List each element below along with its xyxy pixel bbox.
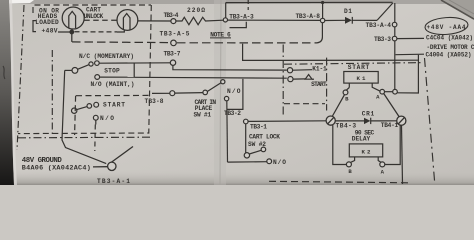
relay K2 — [333, 125, 403, 184]
switch S3 CART IN PLACE SW #1 — [152, 79, 243, 162]
wire: start box dashed left — [75, 96, 76, 135]
svg-text:TB3-8: TB3-8 — [145, 98, 164, 105]
svg-text:220Ω: 220Ω — [187, 7, 205, 14]
switch S2 START momentary — [72, 95, 151, 151]
svg-text:B4A06 (XA042AC4): B4A06 (XA042AC4) — [22, 164, 91, 172]
svg-text:N/O (MAINT,): N/O (MAINT,) — [91, 81, 135, 88]
terminal TB3-7 — [170, 60, 175, 65]
top edge shading — [0, 0, 474, 4]
wire: TB3-3 to connector text — [397, 37, 424, 39]
wire: K2 B to TB4-3 — [333, 125, 347, 164]
wire: lamp DS1 bottom stub — [71, 29, 73, 32]
switch S4 CART LOCK SW #2 — [228, 124, 272, 164]
wire: dashed link DS1 to DS2 top — [84, 19, 116, 21]
wire: K2 A to TB4-1 — [385, 125, 400, 164]
wire: TB3-A-3 to TB3-A-8 — [228, 19, 321, 21]
terminal TB3-3 — [392, 36, 397, 41]
wire: enclosure right dashed vertical — [18, 5, 151, 134]
terminal TB3-1 — [244, 119, 249, 124]
svg-text:UNLOCK: UNLOCK — [84, 13, 104, 20]
wire: jog from aux rail to sw1 drop — [227, 79, 243, 110]
svg-text:TB4-1: TB4-1 — [381, 122, 399, 129]
svg-text:TB3-1: TB3-1 — [250, 123, 267, 130]
svg-text:NOTE 6: NOTE 6 — [210, 31, 231, 38]
net label: +48V -AA4 (circled) — [424, 16, 468, 36]
wire: rail corner up to TB3-A-8 — [317, 23, 322, 43]
wire: dashed drain below start — [94, 125, 97, 152]
terminal TB3-A-5 — [171, 40, 177, 46]
wire: +48V node drop — [71, 33, 73, 42]
svg-text:SW #1: SW #1 — [194, 112, 212, 119]
terminal TB3-4 — [171, 19, 176, 24]
wire: relay supply rail — [243, 44, 418, 61]
maintained contact circle — [95, 75, 100, 80]
wire: right fold dash-dot boundary — [425, 58, 435, 184]
contact START aux (triangle) — [288, 75, 314, 82]
wire: C4004 drop to interlock — [398, 55, 419, 93]
wire: TB3-8 leads — [152, 92, 170, 94]
bottom shading — [0, 170, 474, 185]
wire: TB3-1 to TB4-3 — [248, 120, 326, 123]
wire: dashed link DS1 to DS2 bottom — [75, 31, 118, 33]
wire: enclosure bottom dash-dot — [18, 136, 150, 139]
wire: right bus riser — [394, 3, 396, 89]
switch S1 STOP N/C momentary — [62, 61, 170, 164]
svg-text:TB3-3: TB3-3 — [374, 36, 391, 43]
wire: N/C contact to TB3-7 — [99, 62, 170, 64]
svg-text:START: START — [103, 102, 125, 109]
top-right fold crease line — [441, 0, 474, 19]
wire: diagonal into ground terminal — [111, 147, 133, 163]
svg-text:TB3-A-5: TB3-A-5 — [160, 30, 190, 37]
junction +48V node (solder dot) — [70, 30, 74, 34]
lamp DS1 (ON OR HEADS LOADED) — [62, 7, 84, 29]
wire: maint contact line — [100, 76, 135, 78]
wire: start N/O stub — [95, 120, 97, 124]
contact K1-1 — [287, 68, 312, 73]
label bracket: ON OR HEADS LOADED — [33, 21, 36, 32]
svg-text:TB3-2: TB3-2 — [224, 110, 241, 117]
wire: sw1 N/O contact drop down to sw2 feed — [226, 101, 229, 162]
diode D1 — [325, 17, 377, 24]
contact circle pair near A — [380, 89, 385, 94]
wire: inner dashed vertical (stop box) — [51, 50, 53, 137]
svg-text:N/O: N/O — [227, 88, 241, 95]
wire: TB3-1 drop to sw2 — [245, 124, 247, 153]
svg-text:N/C (MOMENTARY): N/C (MOMENTARY) — [79, 53, 134, 60]
svg-text:K1: K1 — [357, 75, 367, 82]
svg-text:START: START — [311, 81, 327, 88]
svg-text:N/O: N/O — [100, 115, 114, 122]
wire: bottom dashed — [269, 181, 409, 183]
wire: TB3-7 jog down right — [173, 65, 287, 70]
svg-text:TB3-A-8: TB3-A-8 — [295, 13, 320, 20]
connector TB4-3 — [326, 116, 335, 125]
top-right fold shadow — [441, 0, 474, 20]
wire: sw2 N/O contact left to drop wire — [228, 161, 267, 163]
wire: start box dashed top — [76, 94, 150, 96]
svg-text:D1: D1 — [344, 8, 352, 15]
left-edge pen squiggle — [3, 66, 5, 79]
lamp DS2 (CART UNLOCK) — [117, 10, 138, 31]
svg-text:START: START — [348, 64, 370, 71]
wire: lamp enclosure top dashed — [33, 5, 151, 13]
terminal TB3-A-8 — [320, 18, 324, 22]
resistor R1 220 ohm — [176, 17, 223, 24]
svg-text:STOP: STOP — [104, 68, 120, 75]
wire: DS2 to TB3-4 — [138, 20, 171, 22]
wire: lamp DS2 bottom stub — [117, 30, 124, 32]
wire: dashed stub top — [247, 0, 249, 10]
wire: K1 A diagonal to TB4-1 — [384, 94, 400, 117]
left page-edge dark strip — [0, 0, 14, 185]
wire: C4004 feed — [396, 53, 425, 56]
node TB3-A-3 junction circle — [223, 18, 227, 22]
svg-text:SW #2: SW #2 — [248, 141, 266, 148]
svg-text:TB3-A-4: TB3-A-4 — [365, 22, 391, 29]
svg-text:DELAY: DELAY — [352, 135, 371, 142]
wire: +48V feed — [58, 31, 71, 33]
paper background — [0, 0, 474, 185]
svg-text:CR1: CR1 — [362, 110, 375, 117]
top-left white sliver — [0, 0, 34, 4]
terminal TB3-A-1 ground — [93, 147, 133, 171]
vertical paper crease — [214, 0, 226, 185]
wire: stop common left — [65, 69, 72, 71]
wire: TB3-A-3 riser — [225, 3, 227, 18]
wire: dashed +48V rail segment right of TB3-A-5 — [177, 42, 317, 44]
wire: TB3-A-8 riser — [322, 4, 324, 19]
svg-text:C4C04 (XA042): C4C04 (XA042) — [426, 35, 473, 42]
wire: branch jog N/C rail to maint rail — [133, 63, 135, 77]
svg-text:+48V -AA4: +48V -AA4 — [427, 24, 466, 31]
svg-text:K2: K2 — [362, 149, 372, 156]
wire: maint rail to K1 aux — [134, 76, 287, 79]
wire: diagonal up to top rail — [377, 3, 393, 20]
wire: outer dash-dot boundary left — [17, 5, 24, 150]
wire: ground drain down-left — [62, 70, 106, 163]
relay enclosure dashed lines — [269, 45, 435, 185]
svg-text:+48V: +48V — [42, 28, 58, 35]
svg-text:TB3-7: TB3-7 — [164, 51, 181, 58]
wire: top rail — [226, 1, 393, 3]
svg-text:C4004 (XA052): C4004 (XA052) — [426, 52, 472, 59]
wire: hook under TB3-A-3 — [230, 22, 247, 28]
relay K1 — [343, 72, 397, 95]
svg-text:-DRIVE MOTOR C: -DRIVE MOTOR C — [427, 44, 474, 51]
wire: TB4-1 drop to bottom — [402, 125, 403, 184]
connector TB4-1 — [397, 116, 406, 125]
svg-text:CART LOCK: CART LOCK — [249, 133, 280, 140]
wire: dashed +48V rail to TB3-A-5 — [72, 41, 170, 44]
svg-text:N/O: N/O — [273, 159, 286, 166]
diode CR1 — [335, 118, 396, 124]
wire: ground label pointer — [93, 166, 107, 168]
svg-text:TB4-3: TB4-3 — [336, 122, 357, 129]
svg-text:TB3-4: TB3-4 — [164, 12, 179, 19]
wire: K1 B diagonal to TB4-3 — [332, 95, 344, 117]
terminal TB3-A-4 — [392, 22, 397, 27]
svg-text:K1-1: K1-1 — [312, 66, 327, 73]
junction dot top rail — [321, 1, 324, 4]
svg-text:LOADED: LOADED — [35, 19, 59, 26]
